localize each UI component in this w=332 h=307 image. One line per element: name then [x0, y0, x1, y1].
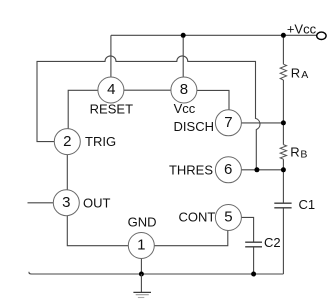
svg-text:C1: C1 [299, 197, 316, 212]
pin 2 TRIG [54, 129, 116, 155]
terminal +Vcc [317, 32, 326, 39]
svg-text:B: B [300, 148, 307, 160]
node C2 / bottom rail [251, 272, 256, 277]
wire RB top lead [282, 123, 284, 145]
wire C1 top lead [282, 170, 284, 203]
node RB / C1 / pin6 [281, 167, 286, 172]
svg-text:R: R [290, 145, 299, 160]
svg-text:TRIG: TRIG [85, 134, 116, 149]
svg-text:7: 7 [224, 114, 232, 131]
resistor RB [280, 145, 286, 160]
ground [133, 274, 151, 298]
svg-text:6: 6 [224, 161, 232, 178]
pin 8 Vcc [171, 77, 197, 116]
wire pin2 TRIG to THRES node with hops [37, 56, 260, 170]
wire pin8 to top rail [182, 35, 184, 77]
pin 4 RESET [90, 77, 133, 116]
pin 1 GND [128, 214, 157, 258]
pin 5 CONT [179, 205, 242, 231]
wire pin3 to pin1 [67, 216, 128, 246]
node pin1 / bottom rail [139, 272, 144, 277]
svg-text:2: 2 [63, 133, 71, 150]
wire pin2 to pin3 [66, 155, 68, 190]
node top rail / pin8 [181, 33, 186, 38]
wire bottom rail [29, 272, 283, 274]
svg-text:R: R [291, 65, 300, 80]
svg-text:8: 8 [180, 81, 188, 98]
wire C2 to bottom rail [253, 247, 255, 274]
pin 6 THRES [169, 157, 241, 183]
svg-text:A: A [301, 69, 308, 81]
svg-text:CONT: CONT [179, 210, 216, 225]
wire OUT stub [28, 202, 54, 204]
wire pin7 to RA/RB junction [241, 122, 283, 124]
capacitor C2 [245, 242, 262, 247]
wire pin4 to pin8 [124, 89, 171, 91]
svg-text:DISCH: DISCH [174, 119, 214, 134]
svg-text:1: 1 [137, 237, 145, 254]
svg-text:OUT: OUT [83, 196, 111, 211]
wire pin8 to pin7 [197, 90, 229, 110]
wire RA top lead [282, 35, 284, 64]
svg-text:C2: C2 [264, 235, 281, 250]
wire pin1 to bottom rail [140, 259, 142, 275]
svg-text:THRES: THRES [169, 163, 213, 178]
node RA / RB / pin7 [281, 120, 286, 125]
svg-text:3: 3 [62, 194, 70, 211]
wire RA bottom lead [282, 80, 284, 123]
svg-text:+Vcc: +Vcc [287, 22, 317, 37]
wire top rail +Vcc [111, 34, 317, 36]
wire C1 to bottom rail [282, 208, 284, 274]
node top rail / RA [281, 33, 286, 38]
capacitor C1 [274, 203, 291, 208]
pin 3 OUT [53, 190, 110, 216]
svg-text:4: 4 [107, 81, 115, 98]
wire pin6 to RB/C1 junction [241, 169, 283, 171]
svg-text:5: 5 [224, 209, 232, 226]
svg-text:GND: GND [128, 214, 157, 229]
svg-text:RESET: RESET [90, 101, 133, 116]
wire pin5 to C2 [242, 217, 254, 242]
wire RB bottom lead [282, 159, 284, 170]
resistor RA [280, 64, 286, 80]
wire pin5 to pin1 [154, 230, 228, 245]
svg-text:Vcc: Vcc [174, 101, 196, 116]
node TRIG-THRES [254, 167, 259, 172]
wire pin4 to pin2 [68, 90, 98, 128]
pin 7 DISCH [174, 110, 242, 136]
wire pin4 to top rail [110, 35, 112, 77]
